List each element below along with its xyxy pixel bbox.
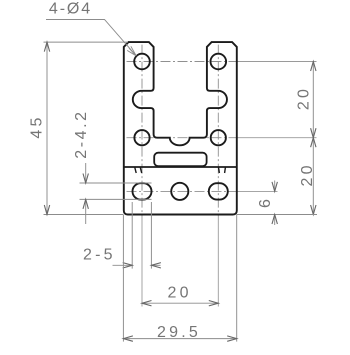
slot bottom-right <box>209 183 228 199</box>
hole middle-right <box>211 130 226 145</box>
centerline row bottom slots (y=191.4) <box>127 190 239 192</box>
dimension 45 <box>44 42 129 214</box>
leader 4-Ø4 <box>46 20 136 56</box>
svg-text:6: 6 <box>257 199 274 208</box>
svg-text:4-Ø4: 4-Ø4 <box>49 1 92 18</box>
notch tick marks left <box>135 167 142 173</box>
svg-text:20: 20 <box>168 284 192 301</box>
dimension 2-5 <box>113 202 161 269</box>
hole bottom-center <box>171 183 188 200</box>
extension line column left below part <box>141 216 143 307</box>
slot bottom-left <box>133 183 152 199</box>
notch tick marks right <box>219 167 226 173</box>
part outline <box>124 42 237 214</box>
flange separation line (y=166.8) <box>124 166 237 168</box>
extension line row bottom slots right <box>238 190 278 192</box>
extension line row top holes right <box>238 61 317 63</box>
hole top-left <box>134 54 150 70</box>
dimension 20 right top <box>311 62 316 215</box>
extension line row middle holes right <box>238 137 317 139</box>
svg-text:2-4.2: 2-4.2 <box>73 109 90 158</box>
dimension 29.5 <box>123 215 236 342</box>
dimension 2-4.2 <box>80 163 152 224</box>
svg-text:45: 45 <box>29 114 46 138</box>
svg-text:29.5: 29.5 <box>157 324 201 341</box>
rectangular slot above flange line <box>154 153 206 167</box>
svg-text:20: 20 <box>299 162 316 186</box>
svg-text:20: 20 <box>296 86 313 110</box>
centerline row top holes (y=61.5) <box>127 61 239 63</box>
hole top-right <box>211 54 227 70</box>
dimension 20 bottom <box>142 301 218 306</box>
centerline column right (x=218.3) <box>217 45 219 216</box>
hole middle-left <box>134 130 149 145</box>
svg-text:2-5: 2-5 <box>83 247 116 264</box>
dimension 6 right <box>237 181 317 226</box>
centerline column left (x=142) <box>141 45 143 216</box>
centerline row middle holes (y=137.7) <box>127 137 239 139</box>
extension line column right below part <box>217 216 219 307</box>
